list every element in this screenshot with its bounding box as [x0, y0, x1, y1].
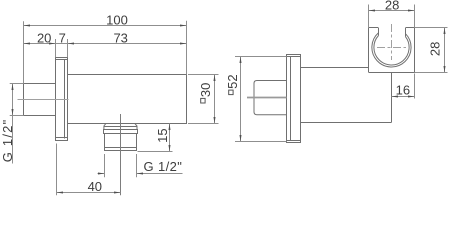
- svg-text:G 1/2": G 1/2": [144, 159, 183, 174]
- svg-text:52: 52: [225, 74, 240, 88]
- svg-text:15: 15: [155, 128, 170, 142]
- svg-text:40: 40: [88, 179, 102, 194]
- svg-text:16: 16: [396, 83, 410, 98]
- svg-text:30: 30: [198, 83, 213, 97]
- svg-text:73: 73: [113, 31, 127, 46]
- svg-text:20: 20: [37, 31, 51, 46]
- svg-text:G 1/2": G 1/2": [0, 119, 15, 163]
- svg-text:7: 7: [59, 31, 66, 46]
- svg-text:28: 28: [427, 42, 442, 56]
- svg-text:28: 28: [385, 0, 399, 13]
- svg-text:100: 100: [106, 12, 128, 27]
